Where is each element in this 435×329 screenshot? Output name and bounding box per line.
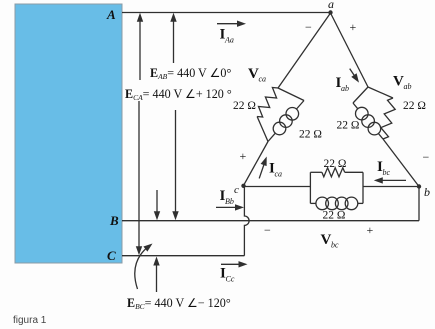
svg-text:+: + <box>350 20 357 34</box>
svg-text:22 Ω: 22 Ω <box>403 100 426 112</box>
svg-text:Cc: Cc <box>226 275 235 284</box>
svg-text:C: C <box>107 248 116 263</box>
svg-text:22 Ω: 22 Ω <box>299 129 322 141</box>
svg-text:c: c <box>234 184 239 196</box>
svg-text:bc: bc <box>383 168 391 177</box>
svg-text:ab: ab <box>404 82 412 91</box>
svg-text:A: A <box>106 7 116 22</box>
svg-text:−: − <box>264 223 271 237</box>
svg-text:b: b <box>424 185 430 199</box>
svg-text:ca: ca <box>275 170 283 179</box>
svg-text:V: V <box>393 74 404 90</box>
svg-text:−: − <box>305 20 312 34</box>
svg-text:ab: ab <box>341 84 349 93</box>
svg-text:bc: bc <box>331 241 339 250</box>
svg-text:22 Ω: 22 Ω <box>233 100 256 112</box>
svg-text:B: B <box>109 213 119 228</box>
svg-text:−: − <box>423 150 430 164</box>
svg-text:22 Ω: 22 Ω <box>323 210 346 222</box>
svg-text:+: + <box>367 223 374 237</box>
svg-text:22 Ω: 22 Ω <box>337 120 360 132</box>
svg-text:22 Ω: 22 Ω <box>324 158 347 170</box>
svg-text:Aa: Aa <box>224 36 234 45</box>
svg-text:ca: ca <box>259 75 267 84</box>
svg-text:Bb: Bb <box>225 197 234 206</box>
svg-text:V: V <box>321 232 332 248</box>
svg-text:+: + <box>240 149 247 163</box>
svg-text:figura 1: figura 1 <box>13 315 47 326</box>
svg-text:V: V <box>248 66 259 82</box>
svg-text:a: a <box>328 0 334 11</box>
